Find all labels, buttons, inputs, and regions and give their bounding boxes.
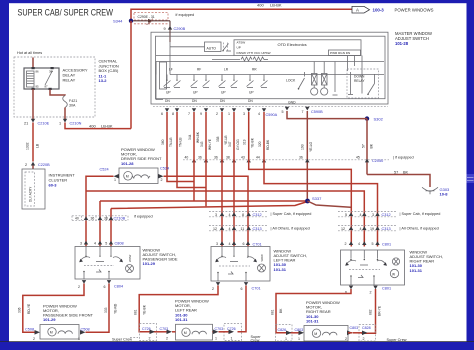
connector row C210B <box>72 216 128 221</box>
svg-text:12: 12 <box>213 227 217 231</box>
label 319 YE-BK <box>243 137 255 148</box>
svg-text:C590A: C590A <box>266 113 278 117</box>
svg-text:UP: UP <box>221 91 226 95</box>
ground G303 <box>422 187 450 197</box>
wire 319 YE-BK (m7) <box>249 112 352 247</box>
svg-text:336: 336 <box>18 307 22 313</box>
lock switch <box>286 72 305 90</box>
svg-text:333: 333 <box>104 307 108 313</box>
svg-text:| All Others, if equipped: | All Others, if equipped <box>400 227 439 231</box>
svg-text:| Super Cab, if equipped: | Super Cab, if equipped <box>400 212 441 216</box>
svg-text:C726: C726 <box>227 327 236 331</box>
C2050 pin 36c <box>299 155 310 162</box>
down relay contact <box>333 72 375 95</box>
frame bottom line <box>0 341 474 343</box>
svg-text:LR: LR <box>224 68 229 72</box>
svg-text:344: 344 <box>188 134 192 140</box>
master pin 2 <box>216 108 224 116</box>
label UP DN (LR) <box>220 91 226 103</box>
svg-text:RR: RR <box>252 68 257 72</box>
svg-text:101-31: 101-31 <box>175 317 188 322</box>
svg-text:C826: C826 <box>278 328 287 332</box>
svg-text:S337: S337 <box>312 196 322 201</box>
connector C508 right <box>78 328 90 341</box>
svg-text:if equipped: if equipped <box>134 215 153 219</box>
svg-text:C313: C313 <box>253 227 262 231</box>
svg-text:881: 881 <box>134 309 138 315</box>
label POWER WINDOW MOTOR LEFT REAR 101-30 101-31 <box>175 299 209 323</box>
frame bottom bar <box>0 342 474 350</box>
window adjust switch right rear box <box>341 250 405 285</box>
svg-text:193: 193 <box>301 144 305 150</box>
svg-text:| Super Cab, if equipped: | Super Cab, if equipped <box>271 212 312 216</box>
svg-text:WH-YE: WH-YE <box>208 138 212 150</box>
auto switch contact <box>222 44 231 52</box>
svg-text:C524: C524 <box>100 168 109 172</box>
svg-text:1: 1 <box>298 337 300 341</box>
svg-text:6: 6 <box>241 287 243 291</box>
svg-text:LB-BK: LB-BK <box>270 3 282 8</box>
resistor block 1 <box>311 62 318 96</box>
svg-text:1: 1 <box>231 336 233 340</box>
svg-text:UP: UP <box>237 45 241 49</box>
label 361 TN-LB <box>179 137 183 147</box>
wire relay switch to fuse <box>50 90 65 96</box>
master pin 7 <box>188 108 196 116</box>
svg-text:POWER WINDOWS: POWER WINDOWS <box>395 8 434 13</box>
svg-text:2: 2 <box>212 287 214 291</box>
svg-text:1: 1 <box>285 337 287 341</box>
svg-text:C801: C801 <box>382 286 391 290</box>
connector C524 right <box>158 167 169 182</box>
label 343 WH-YE <box>200 138 212 150</box>
svg-text:6: 6 <box>104 285 106 289</box>
motor M right rear <box>304 326 348 342</box>
pin 21 C210E <box>24 119 50 126</box>
master pin 5 <box>282 107 290 114</box>
svg-text:C590B: C590B <box>311 110 323 114</box>
label 320 RD-BK <box>258 139 270 150</box>
label UP DN (RR) <box>248 91 254 103</box>
svg-text:881: 881 <box>271 309 275 315</box>
frame right scrollbar notch <box>467 174 474 183</box>
connector row C312 right (Super Cab) <box>338 212 397 217</box>
svg-text:WH-BK: WH-BK <box>196 131 200 143</box>
node S344 <box>113 19 133 24</box>
label 400 LB-BK (top) <box>257 3 282 8</box>
svg-text:85: 85 <box>36 85 40 89</box>
auto switch dashed box <box>170 42 228 52</box>
svg-text:Hot at all times: Hot at all times <box>17 51 42 55</box>
window adjust switch passenger side box <box>75 247 140 280</box>
svg-text:YE-RD: YE-RD <box>114 303 118 314</box>
switch contacts LF <box>164 75 181 88</box>
svg-text:101-31: 101-31 <box>306 319 319 324</box>
svg-text:C701: C701 <box>253 242 262 246</box>
wire relay to pin 21 <box>32 89 34 119</box>
svg-text:DN: DN <box>220 99 225 103</box>
svg-text:C210E: C210E <box>38 122 50 126</box>
resistor zigzags under OTD box <box>212 57 268 61</box>
master pin 3 <box>243 108 251 116</box>
svg-text:| if equipped: | if equipped <box>393 156 414 160</box>
label 344 WH-BK <box>188 131 200 143</box>
label YE-BK (left rear) <box>134 304 147 315</box>
svg-text:4: 4 <box>258 112 260 116</box>
svg-text:A: A <box>356 7 359 12</box>
wire fuse to pin 1 <box>64 108 66 120</box>
svg-text:WDW: WDW <box>128 254 132 262</box>
svg-text:13-2: 13-2 <box>99 78 108 83</box>
connector C826 left (right rear motor) <box>276 325 293 342</box>
pin 2 C220B <box>25 162 50 169</box>
connector C801 bottom pins <box>345 286 391 295</box>
svg-text:OTD Electronics: OTD Electronics <box>278 42 307 47</box>
master pin 9 <box>200 108 208 116</box>
svg-text:UP: UP <box>193 91 198 95</box>
switch contacts RR <box>247 75 268 88</box>
label WINDOW ADJUST SWITCH LEFT REAR 101-30 101-31 <box>274 248 307 271</box>
label PWR RGN DN <box>329 50 361 56</box>
svg-text:7: 7 <box>188 112 190 116</box>
motor M driver side front <box>119 168 158 184</box>
connector C290E pass-through <box>133 13 170 25</box>
node S337 <box>305 196 322 204</box>
frame left bar <box>0 0 9 350</box>
wire 57 BK S302 down <box>366 119 368 175</box>
svg-text:343: 343 <box>200 141 204 147</box>
svg-text:SUPER CAB/ SUPER CREW: SUPER CAB/ SUPER CREW <box>18 7 114 18</box>
master interior feed wire <box>169 42 171 75</box>
svg-text:21: 21 <box>24 122 28 126</box>
svg-text:1: 1 <box>59 122 61 126</box>
svg-text:LB: LB <box>36 143 40 148</box>
svg-text:YE-BK: YE-BK <box>143 304 147 315</box>
wire S337 branch to right C312 <box>308 201 352 207</box>
wire bus y201 to S337 <box>100 200 308 202</box>
svg-text:UP: UP <box>249 91 254 95</box>
svg-text:C808: C808 <box>115 241 124 245</box>
connector C801 top pins <box>345 241 392 246</box>
svg-text:C220B: C220B <box>38 163 50 167</box>
svg-text:C290B: C290B <box>174 27 186 31</box>
svg-text:S302: S302 <box>374 117 384 122</box>
connector C703 right <box>213 327 224 340</box>
wire 343 WH-YE (m4) <box>205 112 207 206</box>
C2050 pin 40 <box>185 155 197 162</box>
svg-text:4: 4 <box>229 213 231 217</box>
svg-text:9: 9 <box>200 112 202 116</box>
wire motor left to passenger riser <box>86 176 114 191</box>
svg-text:6: 6 <box>161 112 163 116</box>
svg-text:40: 40 <box>75 217 79 221</box>
svg-text:LF: LF <box>169 68 173 72</box>
label 360 TN-LB <box>161 137 173 147</box>
connector C524 left <box>100 168 120 182</box>
connector row C2050 dashed line <box>183 159 389 161</box>
connector arrow A to power windows <box>352 6 370 13</box>
frame top bar <box>0 0 474 3</box>
wire left rear pin6 to motor <box>238 286 247 332</box>
window adjust switch left rear box <box>211 247 270 282</box>
svg-text:4: 4 <box>94 241 96 245</box>
svg-text:3: 3 <box>216 242 218 246</box>
C2050 pin 45 <box>356 155 369 162</box>
OTD electronics box <box>156 36 386 98</box>
label UP DN (LF) <box>165 91 171 103</box>
svg-text:BK: BK <box>403 170 409 174</box>
wire 1332 LB to cluster <box>32 123 34 162</box>
wire 400 LB-BK from C210N to master switch riser <box>65 123 131 129</box>
wire 320 RD-BK (m8) <box>264 112 378 247</box>
connector C803 right <box>345 326 358 341</box>
svg-text:101-31: 101-31 <box>274 267 287 272</box>
C2050 pin 44 <box>256 155 266 162</box>
svg-text:1: 1 <box>78 337 80 341</box>
relay K accessory delay <box>24 67 59 90</box>
svg-text:AUTO: AUTO <box>207 46 217 50</box>
svg-text:DLY ACRY: DLY ACRY <box>29 186 33 202</box>
svg-text:RELAY: RELAY <box>63 78 76 83</box>
svg-text:M: M <box>314 332 317 336</box>
svg-text:101-28: 101-28 <box>395 41 409 46</box>
motor M passenger side front <box>40 325 79 340</box>
label Super Crew (left rear) <box>251 335 262 343</box>
label WINDOW ADJUST SWITCH PASSENGER SIDE 101-29 <box>143 247 178 266</box>
svg-text:1332: 1332 <box>26 142 30 150</box>
svg-text:4: 4 <box>360 227 362 231</box>
connector C726 right <box>219 324 242 341</box>
svg-text:PWR RGN DN: PWR RGN DN <box>330 51 350 55</box>
svg-text:3: 3 <box>80 241 82 245</box>
connector row C312 left (Super Cab) <box>209 212 268 217</box>
svg-text:C2050: C2050 <box>372 159 383 163</box>
svg-text:2: 2 <box>33 337 35 341</box>
svg-text:C701: C701 <box>252 286 261 290</box>
pin 1 C210N <box>59 119 82 126</box>
wire right rear pin6 to motor <box>276 289 351 333</box>
master pin 4 <box>258 108 266 116</box>
svg-text:RELAY: RELAY <box>354 79 365 83</box>
svg-text:UP: UP <box>166 91 171 95</box>
label 193 YE-LG <box>301 141 314 152</box>
svg-text:3: 3 <box>372 213 374 217</box>
svg-text:2: 2 <box>345 242 347 246</box>
wires OTD to down relay <box>335 56 362 94</box>
label 882 BR-YE <box>369 305 382 316</box>
svg-text:44: 44 <box>256 155 260 159</box>
master window adjust switch box <box>151 32 388 104</box>
connector C804 pins <box>78 280 123 289</box>
svg-text:101-31: 101-31 <box>410 268 423 273</box>
connector C703 left <box>155 327 176 340</box>
svg-text:2: 2 <box>25 163 27 167</box>
C2050 pin 38 <box>226 155 236 162</box>
master inner bus lines <box>156 62 384 75</box>
svg-text:4: 4 <box>358 242 360 246</box>
label WINDOW ADJUST SWITCH RIGHT REAR 101-30 101-31 <box>410 249 443 272</box>
label 57 BK (horizontal) <box>394 170 409 174</box>
wire 361 TN-LB (m2) <box>177 112 206 188</box>
motor M left rear <box>176 324 213 340</box>
svg-text:2: 2 <box>363 337 365 341</box>
svg-text:5: 5 <box>282 110 284 114</box>
master pin 7b <box>302 107 310 114</box>
label 1332 LB <box>26 142 40 150</box>
svg-text:1: 1 <box>215 336 217 340</box>
label 336 RD-YE <box>18 303 32 314</box>
down relay dashed box <box>347 69 379 98</box>
label 347 GY-OG <box>228 139 240 150</box>
svg-text:347: 347 <box>228 141 232 147</box>
wire S344 down to 400 LB-BK run <box>130 21 132 129</box>
connector row C313 left (All Others) <box>209 226 268 231</box>
label INSTRUMENT CLUSTER 60-3 <box>49 173 76 188</box>
svg-text:Super Crew: Super Crew <box>387 338 407 342</box>
svg-text:RD-BK: RD-BK <box>266 139 270 150</box>
svg-text:2: 2 <box>161 178 163 182</box>
svg-text:6: 6 <box>243 242 245 246</box>
svg-text:101-29: 101-29 <box>43 317 56 322</box>
switch contacts LR <box>219 75 238 88</box>
connector C701 bottom pins <box>212 282 261 291</box>
svg-text:36: 36 <box>214 155 218 159</box>
svg-text:360: 360 <box>161 139 165 145</box>
wire 400 LB-BK feed: S344 up and across top <box>131 9 352 20</box>
svg-text:40: 40 <box>185 155 189 159</box>
svg-text:87: 87 <box>45 85 49 89</box>
svg-text:57: 57 <box>362 144 366 148</box>
svg-text:2: 2 <box>370 290 372 294</box>
svg-text:8: 8 <box>242 213 244 217</box>
svg-text:DN: DN <box>165 99 170 103</box>
svg-text:3: 3 <box>215 213 217 217</box>
svg-text:400: 400 <box>89 123 96 128</box>
wire feed into relay <box>32 58 34 69</box>
wire 347 GY-OG (m6) <box>233 112 235 247</box>
label Super Crew (passenger) <box>112 337 138 341</box>
master switch bottom pins <box>153 105 388 107</box>
svg-text:11: 11 <box>241 227 245 231</box>
svg-text:GND: GND <box>288 100 296 104</box>
svg-text:C804: C804 <box>114 284 123 288</box>
connector C508 left <box>25 328 40 341</box>
wire master pin5 to S302 <box>287 111 367 119</box>
label 100-3 POWER WINDOWS <box>373 8 434 13</box>
svg-text:5: 5 <box>345 213 347 217</box>
connector C803 left <box>292 328 305 341</box>
svg-text:LB-BK: LB-BK <box>101 123 113 128</box>
svg-text:5: 5 <box>372 242 374 246</box>
label UP DN (RF) <box>192 91 198 103</box>
svg-text:10-8: 10-8 <box>440 192 449 197</box>
label 881 BK (right rear) <box>271 308 284 315</box>
svg-text:8: 8 <box>172 112 174 116</box>
svg-text:400: 400 <box>257 3 264 8</box>
label 333 YE-RD <box>104 303 118 314</box>
wire bus y206 to S337 <box>111 202 308 209</box>
wire bus y191 to right rear <box>86 191 364 247</box>
svg-text:38: 38 <box>226 155 230 159</box>
svg-text:36: 36 <box>198 155 202 159</box>
label POWER WINDOW MOTOR DRIVER SIDE FRONT 101-28 <box>121 147 162 166</box>
svg-text:101-28: 101-28 <box>121 161 134 166</box>
svg-text:| All Others, if equipped: | All Others, if equipped <box>271 227 310 231</box>
connector C808 pins <box>80 241 124 246</box>
svg-text:86: 86 <box>36 70 40 74</box>
svg-text:7: 7 <box>302 110 304 114</box>
wire 358 YE-LB (m5) <box>221 112 223 247</box>
svg-text:DN: DN <box>192 99 197 103</box>
wire C290B into master switch <box>169 30 171 43</box>
svg-text:320: 320 <box>258 141 262 147</box>
svg-text:45: 45 <box>356 155 360 159</box>
wire right rear pin2 to motor <box>362 289 376 333</box>
svg-text:1: 1 <box>114 178 116 182</box>
fuse F421 30A <box>63 96 77 108</box>
svg-text:YE-LG: YE-LG <box>309 141 313 152</box>
svg-text:GY-OG: GY-OG <box>236 139 240 150</box>
wire 57 BK to ground <box>367 175 430 188</box>
wire 336 RD-YE passenger pin2 to motor <box>23 284 84 333</box>
svg-text:36: 36 <box>299 155 303 159</box>
svg-text:100-3: 100-3 <box>373 8 385 13</box>
svg-text:1: 1 <box>228 112 230 116</box>
wire passenger riser 5 <box>110 209 112 247</box>
svg-text:C703: C703 <box>215 327 224 331</box>
svg-text:4: 4 <box>360 213 362 217</box>
svg-text:C210B: C210B <box>114 217 126 221</box>
svg-text:C828: C828 <box>362 326 371 330</box>
svg-text:BK: BK <box>370 143 374 148</box>
svg-text:C210N: C210N <box>70 122 82 126</box>
svg-text:2: 2 <box>166 336 168 340</box>
svg-text:M: M <box>184 331 187 335</box>
svg-text:if equipped: if equipped <box>176 13 195 17</box>
pin 9 C290B <box>164 21 186 31</box>
svg-text:TN-LB: TN-LB <box>169 137 173 147</box>
connector row C313 right (All Others) <box>338 226 397 231</box>
svg-text:38: 38 <box>104 217 108 221</box>
frame right bar <box>467 0 474 350</box>
connector C701 top pins <box>216 241 262 246</box>
node S302 <box>365 116 384 121</box>
svg-text:882: 882 <box>369 309 373 315</box>
C2050 pin 43 <box>241 155 251 162</box>
svg-text:C801: C801 <box>382 242 391 246</box>
svg-text:5: 5 <box>105 241 107 245</box>
svg-text:Crew: Crew <box>251 339 260 343</box>
label CENTRAL JUNCTION BOX (CJB) <box>99 59 119 84</box>
switch contacts RF <box>191 75 210 88</box>
master inner left wire loop <box>156 62 167 100</box>
svg-text:C524: C524 <box>160 167 169 171</box>
svg-text:W: W <box>392 273 395 277</box>
svg-text:M: M <box>126 175 129 179</box>
svg-text:4: 4 <box>229 242 231 246</box>
master pin 8 <box>172 108 179 116</box>
resistor block 2 <box>321 62 328 96</box>
C2050 pin 36a <box>198 155 208 162</box>
wire 344 WH-BK (m3) <box>193 112 195 201</box>
svg-text:12: 12 <box>341 227 345 231</box>
svg-text:319: 319 <box>243 139 247 145</box>
svg-text:101-29: 101-29 <box>143 261 156 266</box>
svg-text:43: 43 <box>241 155 245 159</box>
svg-text:2: 2 <box>216 112 218 116</box>
wire left rear pin2 to motor <box>139 286 218 332</box>
wire 360 TN-LB (m1) <box>167 112 194 182</box>
